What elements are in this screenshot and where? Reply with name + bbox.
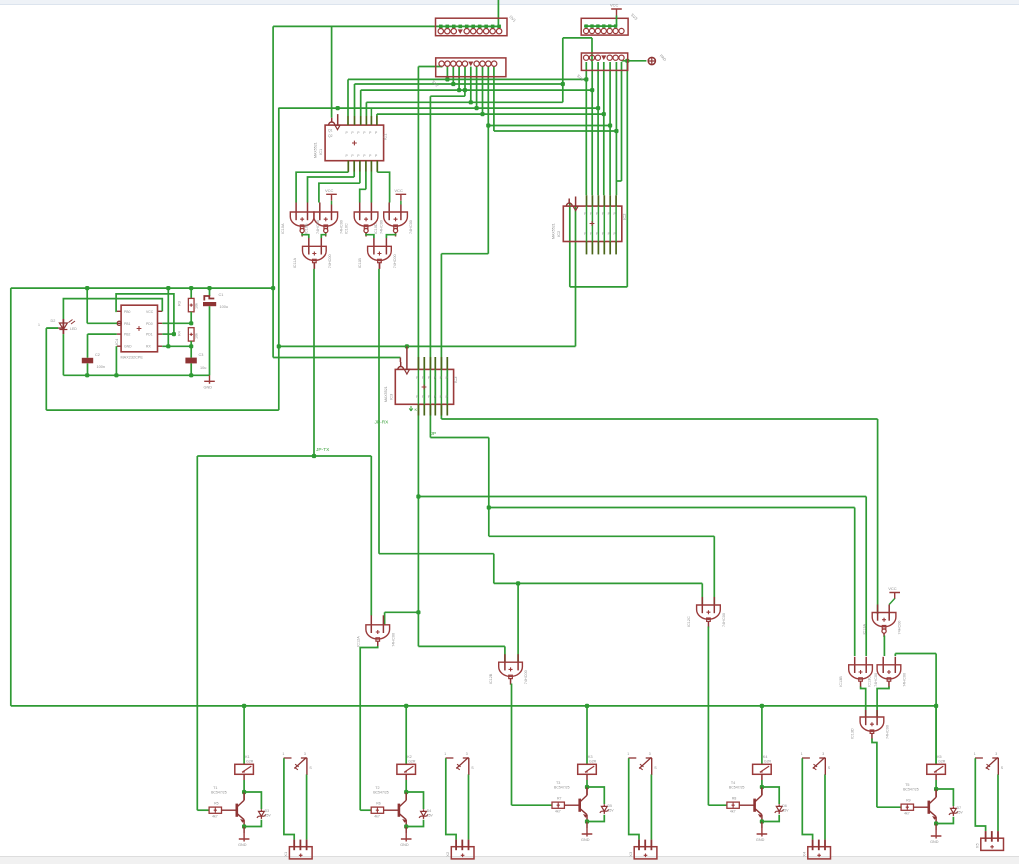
nand gate IC10D [388,203,390,221]
svg-text:G2R: G2R [938,759,946,763]
wire IC3 crossing columns [423,369,425,404]
node bus junction dots [445,77,449,81]
svg-text:X1: X1 [283,851,288,857]
svg-text:74HC00: 74HC00 [339,220,343,234]
svg-text:74HC00: 74HC00 [524,670,528,684]
IC4 right pins [158,310,163,312]
svg-text:GND: GND [400,843,409,847]
svg-text:JP-RX: JP-RX [375,420,390,426]
wire pin3R short [162,333,174,335]
svg-text:IC4: IC4 [114,338,119,345]
nand gate IC13C [882,657,884,673]
svg-text:VCC: VCC [325,188,334,193]
svg-text:Z5V: Z5V [957,811,964,815]
svg-text:T3: T3 [556,781,560,785]
capacitor C2 [82,358,93,364]
connector SV3 7-pin header [581,18,628,35]
svg-text:4k7: 4k7 [374,815,380,819]
svg-text:3: 3 [995,752,997,756]
svg-text:R5: R5 [214,802,219,806]
capacitor C1 polarized [209,288,211,296]
svg-text:10k: 10k [195,303,199,309]
connector SV4 7-pin header [581,53,627,70]
wire bus A3 [361,89,593,91]
wire IC12A output to Q2 base line [360,646,378,810]
svg-text:IC10A: IC10A [281,223,285,234]
svg-text:IC12B: IC12B [489,673,493,684]
svg-text:PB1: PB1 [124,322,131,326]
transistor T3 [578,799,581,812]
svg-text:IC13C: IC13C [868,676,872,687]
IC2 bus pins olive [586,195,588,206]
wire switch to connector [284,758,294,839]
wire switch to connector [446,758,456,839]
svg-text:IC10D: IC10D [374,223,378,234]
svg-text:D5: D5 [608,804,613,808]
wire SV2 pin stubs down to bus [446,67,448,80]
mount pad crossed circle [648,57,655,64]
resistor R7 base [512,804,553,806]
connector X5 [981,838,1004,850]
wire JP-TX net from OR1 output [313,269,315,456]
ground under transistor [935,824,937,831]
svg-text:IC13A: IC13A [863,623,867,634]
or gate IC11A [308,238,310,255]
svg-text:JP-TX: JP-TX [316,447,330,453]
svg-text:G2R: G2R [246,759,254,763]
resistor R6 base [360,809,371,811]
resistor R8 base [708,804,727,806]
svg-text:S: S [471,766,474,770]
wire net from SV1 to IC3 bubble (left long) [272,26,274,357]
svg-text:Z5V: Z5V [782,809,789,813]
svg-text:D3: D3 [265,809,270,813]
diode D3 [244,792,261,809]
wire IC13D output to Q5 [872,739,877,808]
ground [757,828,768,837]
svg-text:74HC00: 74HC00 [316,220,320,234]
wire below IC3: col430 chain [429,404,431,437]
resistor R4 [188,328,194,341]
node emitter junction [243,825,245,827]
svg-text:VCC: VCC [146,310,154,314]
wire bus A2 [355,83,563,85]
transistor T1 [236,804,239,817]
relay K3 [586,706,588,764]
svg-text:D6: D6 [782,804,787,808]
svg-text:P: P [369,154,372,158]
svg-text:P: P [346,154,349,158]
diode D7 [936,789,953,806]
wire bus A1 [348,78,586,80]
IC IC3 middle chip [395,369,453,404]
switch [628,757,636,759]
svg-text:P: P [351,154,354,158]
wire SV4 right to pad and IC2 bubble net [622,60,647,62]
switch [284,757,292,759]
ground under transistor [243,827,245,834]
connector SV2 10-pin header [436,58,506,77]
wire loopB LED to pin1R [63,299,162,319]
wire IC13B/C outputs into IC13D [861,687,866,718]
svg-text:S: S [654,766,657,770]
ground [582,828,593,837]
svg-text:C1: C1 [219,293,224,297]
wire bus A8 [488,125,610,127]
nand gate IC12A left small [370,615,372,633]
svg-text:LED: LED [70,327,77,331]
relay K2 [405,706,407,764]
svg-text:BC547/25: BC547/25 [211,791,227,795]
svg-text:JP: JP [431,431,437,437]
switch [446,757,454,759]
nand gate IC12C right-bottom [701,597,703,613]
wire pin2R to resistor col [162,322,191,324]
svg-text:4k7: 4k7 [212,815,218,819]
switch [802,757,810,759]
transistor T4 [753,799,756,812]
svg-text:4k7: 4k7 [555,810,561,814]
svg-text:R3: R3 [178,301,182,306]
wire SV2 pin9 down to IC3 col 441 [487,67,489,254]
IC1 pins olive overlap [347,116,349,125]
node collector junction [242,790,246,794]
svg-text:74HC00: 74HC00 [874,673,878,687]
svg-text:G2R: G2R [408,759,416,763]
svg-text:P: P [434,395,437,399]
wire SV2 pin1 to IC3 long vertical [441,66,443,69]
wire long line y=507 to right gates [489,507,855,509]
svg-text:BC547/25: BC547/25 [903,788,919,792]
svg-text:MAX5521: MAX5521 [552,223,556,239]
IC IC2 right bus chip [563,206,622,241]
diode D5 [587,787,604,804]
svg-text:10u: 10u [200,366,206,370]
svg-text:IC1: IC1 [318,148,323,155]
svg-text:GND: GND [124,345,132,349]
svg-text:P: P [375,154,378,158]
svg-text:1: 1 [38,323,40,327]
wire IC3 triangle stub [406,346,408,369]
svg-text:MAX232CPE: MAX232CPE [121,356,144,360]
wire NAND outputs into OR gates [302,234,309,239]
nand gate IC10A [295,203,297,221]
svg-text:Z5V: Z5V [265,814,272,818]
svg-text:T5: T5 [905,783,909,787]
svg-text:VCC: VCC [394,188,403,193]
node collector junction [934,787,938,791]
svg-text:3: 3 [304,752,306,756]
wire opto left feed [46,327,58,329]
capacitor C3 electrolytic [190,346,192,357]
svg-text:D4: D4 [427,809,432,813]
svg-text:X2: X2 [445,851,450,857]
svg-text:BC547/25: BC547/25 [554,786,570,790]
nand gate IC10C [359,203,361,221]
svg-text:VCC: VCC [610,3,619,8]
svg-text:S: S [1001,766,1004,770]
svg-text:SV3: SV3 [630,12,639,21]
svg-text:1: 1 [282,752,284,756]
wire rail to bubble pin2L [86,288,88,323]
svg-text:S: S [828,766,831,770]
svg-text:74HC00: 74HC00 [722,613,726,627]
wire bus A5 (IC1 clock line) [279,107,598,109]
svg-text:X3: X3 [628,851,633,857]
svg-text:74HC00: 74HC00 [380,220,384,234]
svg-text:4k7: 4k7 [904,812,910,816]
nand gate IC13B [854,657,856,673]
ground [204,375,215,384]
svg-text:1: 1 [444,752,446,756]
wire IC1 outputs to gates [347,171,349,174]
svg-text:R6: R6 [376,802,381,806]
svg-text:P: P [357,131,360,135]
svg-text:SV2: SV2 [431,79,440,88]
svg-text:D7: D7 [957,806,962,810]
connector X1 [289,847,312,859]
svg-text:PB2: PB2 [124,333,131,337]
wire below IC3: col441 long line right [440,404,442,419]
svg-text:P: P [363,131,366,135]
svg-text:IC13D: IC13D [851,728,855,739]
svg-text:R7: R7 [557,797,562,801]
svg-text:D2: D2 [51,319,56,323]
svg-text:X4: X4 [802,851,807,857]
svg-text:SV1: SV1 [508,14,517,23]
svg-text:T2: T2 [375,786,379,790]
svg-text:MAX5521: MAX5521 [384,386,388,402]
wire IC12B output down to Q3 [511,684,513,806]
nand gate IC13D bottom [865,710,867,725]
node junction v273 at 288 [271,286,275,290]
wire block bottom rail [63,374,209,376]
or gate IC11B [373,238,375,255]
svg-text:1: 1 [974,752,976,756]
svg-text:P: P [369,131,372,135]
ground [401,833,412,842]
node junction on v278.8 at 346.4 [277,344,281,348]
wire IC13A output into IC13B [883,636,885,657]
ground [931,830,942,839]
svg-text:G2R: G2R [589,759,597,763]
svg-text:BC547/25: BC547/25 [373,791,389,795]
wire v168 rail branch [167,288,169,346]
svg-text:IC1: IC1 [383,133,388,140]
svg-text:MAX5521: MAX5521 [314,142,318,158]
node emitter junction [761,820,763,822]
wire pin4R to resistor col bottom [162,345,191,347]
svg-text:74HC00: 74HC00 [898,621,902,635]
svg-text:74HC00: 74HC00 [409,220,413,234]
diode D4 [406,792,423,809]
svg-text:SV4: SV4 [576,73,585,82]
svg-text:IC2: IC2 [556,230,561,237]
wire SV1 rail into IC1 bubble [331,26,333,117]
svg-text:PAD: PAD [659,54,667,62]
wire long line y=496 to right gates [418,496,866,498]
svg-text:74HC00: 74HC00 [328,254,332,268]
wire JP-RX net from OR2 output [378,269,380,554]
svg-text:K: K [415,407,418,412]
svg-text:T1: T1 [213,786,217,790]
svg-text:T4: T4 [731,781,735,785]
svg-text:PD1: PD1 [146,333,153,337]
wire jog to IC3 pin col 430 [464,90,466,96]
svg-text:BC547/25: BC547/25 [729,786,745,790]
ground under transistor [405,827,407,834]
svg-text:P: P [357,154,360,158]
wire into IC3 bubble [399,358,401,363]
svg-text:C3: C3 [199,353,204,357]
svg-text:PB0: PB0 [124,310,131,314]
wire right gate cluster feed [895,653,936,655]
or gate IC12B middle [504,654,506,670]
wire to top edge from SV1 pin10 [497,0,499,26]
svg-text:R8: R8 [732,797,737,801]
switch [975,757,983,759]
svg-text:3: 3 [466,752,468,756]
svg-text:IC12A: IC12A [356,636,360,647]
svg-text:IC10C: IC10C [345,223,349,234]
nand gate IC13A top-right with VCC [877,605,879,621]
relay K4 [761,706,763,764]
ground under transistor [586,822,588,829]
svg-text:IC12C: IC12C [687,616,691,627]
svg-text:P: P [363,154,366,158]
svg-text:GND: GND [756,838,765,842]
svg-text:IC10B: IC10B [304,223,308,234]
LED opto D2 [62,319,64,334]
svg-text:3: 3 [822,752,824,756]
svg-text:X5: X5 [975,843,980,849]
svg-text:GND: GND [204,385,213,389]
wire loopA pin1L over the top [116,294,174,334]
svg-text:4k7: 4k7 [730,810,736,814]
svg-text:IC11B: IC11B [358,258,362,269]
wire bus A4 [366,101,562,103]
IC IC4 opto driver box [121,305,157,352]
resistor R3 [190,288,192,298]
svg-text:Q2: Q2 [328,134,333,138]
svg-text:C2: C2 [95,353,100,357]
svg-text:100u: 100u [220,305,228,309]
IC IC1 top interface chip [325,125,384,161]
IC3 pin columns olive [417,357,419,369]
resistor R5 base [197,809,209,811]
node collector junction [585,785,589,789]
wire pin3L to cap C2 [88,333,117,335]
svg-text:100n: 100n [97,365,105,369]
svg-text:Z5V: Z5V [608,809,615,813]
ground [239,833,250,842]
svg-text:74HC00: 74HC00 [393,254,397,268]
node emitter junction [405,825,407,827]
node collector junction [760,785,764,789]
nand gate IC10B [319,203,321,221]
svg-text:Z5V: Z5V [427,814,434,818]
svg-text:74HC00: 74HC00 [903,673,907,687]
svg-text:Q1: Q1 [328,129,333,133]
svg-text:P: P [351,131,354,135]
diode D6 [762,787,779,804]
svg-text:IC2: IC2 [622,213,627,220]
svg-text:RX: RX [146,345,151,349]
relay K1 [243,706,245,764]
wire below IC3: col418 chain to gates [417,404,419,646]
transistor T5 [927,801,930,814]
svg-text:IC3: IC3 [453,376,458,383]
wire SV1 common rail [273,25,499,27]
svg-text:G2R: G2R [764,759,772,763]
transistor T2 [398,804,401,817]
svg-text:IC13B: IC13B [839,676,843,687]
wire main bottom rail [10,288,12,706]
wire loop to opto block [278,108,280,411]
svg-text:GND: GND [581,838,590,842]
wire pin4L down to rail [115,346,117,375]
svg-text:GND: GND [238,843,247,847]
svg-text:PD0: PD0 [146,322,153,326]
connector X3 [634,847,657,859]
resistor R9 base [877,806,901,808]
connector X2 [451,847,474,859]
ground under transistor [761,822,763,829]
svg-text:1: 1 [801,752,803,756]
relay K5 [935,706,937,764]
svg-text:3: 3 [649,752,651,756]
svg-text:GND: GND [930,840,939,844]
svg-text:VCC: VCC [888,586,897,591]
svg-text:IC11A: IC11A [293,258,297,269]
svg-text:IC3: IC3 [388,393,393,400]
wire switch to connector [629,758,639,839]
wire IC2 triangle pin long net to left [575,206,577,346]
wire switch to connector [802,758,812,839]
IC4 left pins [117,310,121,312]
svg-text:P: P [434,376,437,380]
wire IC12C output down to Q4 [707,627,709,806]
node collector junction [404,790,408,794]
connector SV1 10-pin header [436,18,508,36]
svg-text:P: P [346,131,349,135]
wire bus A9 [494,130,617,132]
connector X4 [808,847,831,859]
svg-text:P: P [375,131,378,135]
svg-text:R9: R9 [906,799,911,803]
wire SV4 pin columns down to IC2 [585,62,587,195]
wire bus A7 [377,113,604,115]
svg-text:1: 1 [627,752,629,756]
svg-text:S: S [309,766,312,770]
svg-text:74HC00: 74HC00 [886,725,890,739]
svg-text:R4: R4 [178,331,182,336]
svg-text:74HC00: 74HC00 [391,633,395,647]
node emitter junction [935,822,937,824]
svg-text:10k: 10k [195,333,199,339]
wire switch to connector [975,758,985,831]
node emitter junction [586,820,588,822]
